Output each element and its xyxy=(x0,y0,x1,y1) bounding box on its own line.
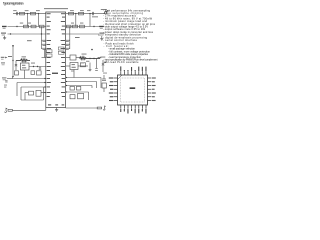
wire row3 right xyxy=(66,33,99,35)
right channel middle xyxy=(66,55,105,78)
small boxes below left xyxy=(15,70,42,79)
inner pin boxes xyxy=(46,47,64,57)
left input jack J1 xyxy=(5,108,46,113)
ground under left cap xyxy=(3,36,6,40)
wire row1 right xyxy=(66,12,107,27)
IC center part number xyxy=(52,73,58,74)
lower-right feedback nest xyxy=(66,75,107,100)
op block U1A left xyxy=(21,63,30,70)
left pins xyxy=(114,78,118,101)
top pins xyxy=(121,71,146,75)
ordering list mid right xyxy=(104,42,158,64)
features list top right xyxy=(103,9,156,42)
center part label xyxy=(130,87,136,89)
wire row2 right xyxy=(66,25,101,28)
top pin labels xyxy=(120,66,146,71)
ground right of row3 xyxy=(99,34,103,40)
left pin labels xyxy=(109,77,113,101)
bottom pins xyxy=(121,105,146,109)
IC pin labels left inside xyxy=(47,13,51,97)
IC pin labels right inside xyxy=(61,13,65,97)
svg-text:- 32-lead PLCC available: - 32-lead PLCC available xyxy=(104,61,140,64)
row1 left labels xyxy=(13,9,16,12)
wire row2 left xyxy=(8,25,46,28)
Vs label left xyxy=(2,26,7,27)
IC bottom pin labels xyxy=(48,104,51,105)
right pin labels xyxy=(152,77,156,101)
inner dashed outline xyxy=(121,78,145,102)
out terminal arrow near text xyxy=(98,57,102,58)
caps ladder left of IC xyxy=(42,27,46,58)
label above IC xyxy=(44,8,68,10)
right pins xyxy=(148,78,152,101)
IC U1 block xyxy=(46,12,66,108)
lower-left feedback nest xyxy=(13,77,46,100)
ground under IC xyxy=(55,108,58,112)
caps ladder right of IC xyxy=(66,27,70,50)
wire opamp out to IC xyxy=(29,66,46,68)
right input jack J2 xyxy=(66,106,106,110)
pin-1 chamfer xyxy=(118,75,123,80)
junction dots nest xyxy=(44,77,67,93)
wire row3 left xyxy=(8,33,46,35)
pot P1 left zigzag xyxy=(22,55,27,58)
bottom pin labels xyxy=(120,109,146,114)
svg-text:Typical Application: Typical Application xyxy=(3,1,24,5)
cap at x40 xyxy=(39,67,41,70)
input column left xyxy=(13,46,17,77)
wire row1 left xyxy=(13,12,46,27)
QFP package body xyxy=(118,75,148,105)
